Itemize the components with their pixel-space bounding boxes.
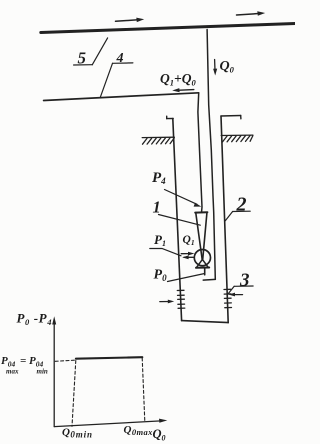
diffuser cone inside circle xyxy=(196,259,209,267)
svg-text:min: min xyxy=(37,368,48,376)
inflow arrow right xyxy=(229,293,243,297)
label 2 leader xyxy=(225,211,250,221)
ground surface left xyxy=(142,137,174,144)
flow arrow left on top pipe xyxy=(116,18,145,23)
label 3 leader xyxy=(228,286,253,294)
svg-text:max: max xyxy=(6,368,19,376)
right casing top hook xyxy=(221,116,241,119)
label 4 leader xyxy=(100,63,133,98)
P0 leader xyxy=(168,274,205,282)
left casing top hook xyxy=(167,116,174,119)
dashed Qmax line xyxy=(142,358,145,421)
svg-text:Q0: Q0 xyxy=(153,427,166,443)
mixing chamber circle xyxy=(194,250,210,266)
label 5 leader xyxy=(74,38,108,65)
svg-text:4: 4 xyxy=(116,51,124,66)
ground surface right xyxy=(221,135,253,142)
label 1 leader xyxy=(159,215,201,226)
surface flowline pipe (top thick) xyxy=(41,24,295,33)
inflow arrow left xyxy=(160,300,174,304)
tubing string left wall (from manifold corner down to nozzle) xyxy=(198,93,202,212)
dashed level line xyxy=(55,360,76,361)
perforations right casing xyxy=(224,289,232,307)
svg-text:P04: P04 xyxy=(1,355,15,369)
graph X axis xyxy=(54,419,167,427)
svg-text:= P04: = P04 xyxy=(20,355,44,369)
ejector housing bottom edge xyxy=(203,278,215,281)
P1 leader arrow xyxy=(150,249,194,260)
Q1 inflow arrow xyxy=(181,252,194,256)
left casing wall xyxy=(173,119,182,321)
svg-text:Q1+Q0: Q1+Q0 xyxy=(160,71,196,88)
tubing string right wall / ejector housing right wall (from top pipe down) xyxy=(207,30,215,280)
svg-text:Q1: Q1 xyxy=(183,234,195,247)
svg-text:P0 -P4: P0 -P4 xyxy=(17,311,53,328)
svg-text:3: 3 xyxy=(239,270,250,291)
manifold pipe (second horizontal) xyxy=(44,93,199,101)
svg-text:Q0: Q0 xyxy=(220,59,235,75)
well bottom xyxy=(182,321,229,323)
Q1+Q0 flow arrow (points left) xyxy=(172,88,194,92)
Q0 down arrow xyxy=(213,60,217,76)
graph Y axis xyxy=(52,316,56,426)
flow arrow right on top pipe xyxy=(237,11,266,16)
dashed Qmin line xyxy=(72,361,76,427)
svg-text:Q0min: Q0min xyxy=(62,426,93,439)
graph label P04max = P04min xyxy=(1,355,48,376)
outlet stub xyxy=(204,268,206,274)
nozzle funnel (1) xyxy=(195,212,207,259)
svg-text:Q0max: Q0max xyxy=(124,424,154,437)
plateau curve xyxy=(76,357,142,359)
perforations left casing xyxy=(177,290,185,308)
P4 leader arrow xyxy=(165,190,202,207)
right casing wall xyxy=(221,116,228,323)
svg-text:P1: P1 xyxy=(154,232,166,248)
svg-text:2: 2 xyxy=(236,194,247,216)
svg-text:P0: P0 xyxy=(154,268,168,284)
svg-text:P4: P4 xyxy=(152,170,166,186)
svg-text:5: 5 xyxy=(78,49,87,68)
svg-text:1: 1 xyxy=(153,198,161,217)
